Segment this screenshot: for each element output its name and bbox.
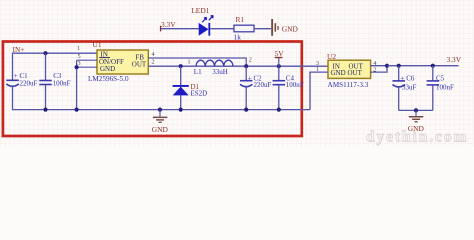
node C2/FB junction bbox=[244, 64, 248, 68]
svg-text:5: 5 bbox=[78, 53, 81, 60]
wire U2 GND to ground rail bbox=[310, 72, 328, 110]
capacitor C4 bbox=[273, 66, 286, 110]
svg-text:U1: U1 bbox=[93, 40, 102, 49]
capacitor C3 bbox=[39, 53, 52, 110]
resistor R1 bbox=[234, 25, 254, 32]
wire switch node rail (U1 OUT to U2 IN) bbox=[148, 65, 328, 67]
svg-text:220uF: 220uF bbox=[20, 80, 38, 88]
inductor L1 bbox=[196, 60, 233, 66]
svg-text:C5: C5 bbox=[436, 75, 445, 83]
wire 3.3V to LED1 bbox=[161, 28, 199, 30]
svg-text:LED1: LED1 bbox=[191, 6, 209, 15]
node D1 top junction bbox=[179, 64, 183, 68]
svg-text:U2: U2 bbox=[327, 52, 336, 61]
svg-text:+ C6: + C6 bbox=[401, 75, 415, 83]
ground symbol (left) bbox=[153, 108, 168, 124]
svg-text:GND: GND bbox=[331, 69, 346, 77]
pin 5 wire (ON/OFF) bbox=[77, 59, 97, 61]
wire R1 to GND port bbox=[254, 28, 271, 30]
svg-text:L1: L1 bbox=[194, 68, 202, 76]
node C5 top bbox=[431, 64, 435, 68]
net 3.3V (top-left power port) bbox=[160, 20, 176, 31]
capacitor C5 bbox=[427, 66, 440, 111]
annotation box (red) bbox=[3, 42, 302, 137]
svg-text:GND: GND bbox=[282, 24, 299, 33]
ground symbol (right) bbox=[409, 108, 424, 122]
svg-text:2: 2 bbox=[152, 59, 155, 66]
node C4 bottom bbox=[277, 108, 281, 112]
node C2 bottom bbox=[244, 108, 248, 112]
pin name ON/OFF bbox=[99, 58, 124, 66]
node D1 bottom bbox=[179, 108, 183, 112]
wire U2 outputs tied bbox=[371, 66, 387, 72]
svg-text:OUT: OUT bbox=[348, 69, 363, 77]
node U2 out tie bbox=[385, 64, 389, 68]
svg-text:4: 4 bbox=[152, 51, 155, 58]
node C4/5V junction bbox=[277, 64, 281, 68]
svg-text:2: 2 bbox=[249, 57, 252, 64]
wire input rail to U1 pin 1 bbox=[13, 52, 98, 54]
svg-text:33uH: 33uH bbox=[212, 68, 228, 76]
svg-text:1k: 1k bbox=[234, 32, 242, 41]
svg-text:ES2D: ES2D bbox=[191, 90, 208, 98]
diode D1 bbox=[173, 66, 189, 110]
svg-text:3.3V: 3.3V bbox=[161, 20, 176, 29]
capacitor C2 bbox=[240, 66, 252, 110]
pin 3 wire (GND) bbox=[77, 66, 97, 68]
LED LED1 bbox=[199, 16, 214, 36]
node C6 top bbox=[397, 64, 401, 68]
op U1 body bbox=[97, 50, 148, 74]
capacitor C1 bbox=[6, 53, 18, 111]
svg-text:OUT: OUT bbox=[132, 61, 147, 69]
node U1 gnd bottom bbox=[75, 108, 79, 112]
svg-text:100nF: 100nF bbox=[53, 80, 71, 88]
svg-text:GND: GND bbox=[100, 65, 115, 73]
svg-text:100nF: 100nF bbox=[436, 84, 454, 92]
capacitor C6 bbox=[393, 66, 406, 111]
op U2 body bbox=[328, 60, 371, 78]
node C3 bottom bbox=[43, 108, 47, 112]
svg-text:1: 1 bbox=[188, 59, 191, 66]
wire FB feedback bbox=[148, 58, 246, 66]
svg-text:1: 1 bbox=[77, 45, 80, 52]
svg-text:IN+: IN+ bbox=[13, 45, 25, 54]
svg-text:33uF: 33uF bbox=[402, 84, 417, 92]
wire U1 pins 5,3 to ground rail bbox=[76, 60, 78, 110]
svg-text:100nF: 100nF bbox=[286, 81, 304, 89]
svg-text:3.3V: 3.3V bbox=[447, 55, 462, 64]
svg-text:AMS1117-3.3: AMS1117-3.3 bbox=[328, 81, 369, 89]
power port 5V bbox=[275, 49, 285, 66]
svg-text:220uF: 220uF bbox=[254, 81, 272, 89]
svg-text:R1: R1 bbox=[236, 15, 245, 24]
node pin3 junction bbox=[75, 65, 79, 69]
svg-text:GND: GND bbox=[408, 124, 425, 133]
ground power port (top right) bbox=[271, 19, 278, 36]
svg-text:LM2596S-5.0: LM2596S-5.0 bbox=[88, 75, 129, 83]
wire LED1 to R1 bbox=[210, 28, 234, 30]
node C3 top junction bbox=[43, 51, 47, 55]
wire C6/C5 bottom tie bbox=[399, 109, 433, 111]
svg-text:GND: GND bbox=[152, 125, 169, 134]
wire 3.3V output rail bbox=[387, 65, 459, 67]
wire ground rail (bottom) bbox=[13, 109, 311, 111]
